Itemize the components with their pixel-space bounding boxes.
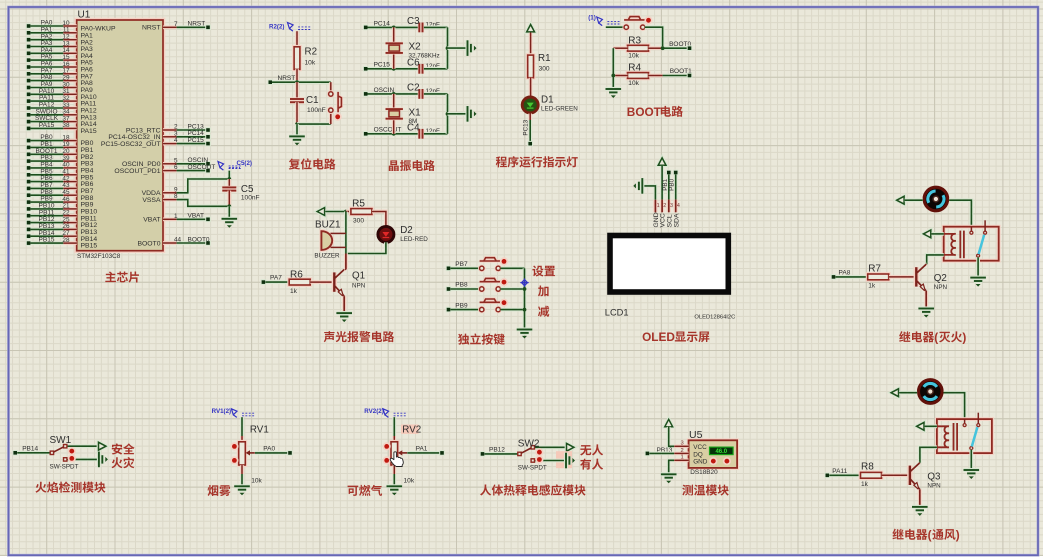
svg-text:R1: R1 bbox=[538, 53, 551, 64]
svg-text:VBAT: VBAT bbox=[143, 217, 160, 224]
terminal PB13 bbox=[645, 451, 651, 457]
wire D2 to bottom node bbox=[346, 242, 386, 253]
wire button to rail bbox=[501, 287, 525, 291]
svg-text:NPN: NPN bbox=[352, 283, 366, 290]
wire rail to ground bbox=[448, 112, 467, 116]
pin VSSA (8) bbox=[163, 198, 177, 202]
svg-text:Q1: Q1 bbox=[352, 270, 365, 281]
svg-text:BOOT0: BOOT0 bbox=[137, 240, 160, 247]
pin SWDIO (34) bbox=[26, 112, 32, 118]
wire coil feed bbox=[931, 232, 943, 236]
svg-text:RV1(2): RV1(2) bbox=[212, 408, 232, 415]
push-button reset bbox=[329, 92, 333, 96]
label 加 bbox=[538, 286, 549, 297]
svg-text:1: 1 bbox=[174, 213, 178, 220]
svg-text:BOOT: BOOT bbox=[627, 105, 662, 119]
ground sideways bbox=[468, 40, 471, 56]
svg-text:NPN: NPN bbox=[934, 284, 948, 291]
svg-text:10k: 10k bbox=[305, 60, 316, 67]
svg-text:VSSA: VSSA bbox=[142, 197, 161, 204]
capacitor C6 12pF bbox=[419, 64, 422, 74]
wire node to R5 bbox=[346, 210, 351, 214]
wire keys rail bbox=[523, 268, 527, 329]
label relay title bbox=[892, 528, 959, 542]
terminal PB12 bbox=[480, 451, 486, 457]
pin PB14 (27) bbox=[26, 233, 32, 239]
wire power to R1 bbox=[529, 33, 533, 56]
diode D2 LED-RED bbox=[378, 226, 394, 242]
pin PA6 (16) bbox=[26, 64, 32, 70]
wire coil to collector bbox=[920, 447, 937, 462]
pin PA4 (14) bbox=[26, 51, 32, 57]
wire right rail bbox=[446, 94, 450, 134]
svg-text:C3: C3 bbox=[407, 16, 420, 27]
svg-text:): ) bbox=[956, 528, 960, 542]
ground RV2 bbox=[387, 486, 403, 489]
wire C1 top stub bbox=[295, 82, 299, 99]
power symbol safe bbox=[99, 442, 106, 450]
terminal PA7 bbox=[261, 279, 267, 285]
label flame module title bbox=[35, 482, 105, 493]
svg-text:BUZZER: BUZZER bbox=[314, 252, 340, 259]
pin PB0 (18) bbox=[26, 138, 32, 144]
wire PB8 to button bbox=[451, 287, 480, 291]
svg-text:LED-RED: LED-RED bbox=[400, 236, 428, 243]
svg-text:38: 38 bbox=[62, 122, 70, 129]
potentiometer RV2 10k bbox=[401, 425, 419, 434]
capacitor C4 12pF bbox=[419, 129, 422, 139]
wire button right to BOOT0 rail bbox=[645, 27, 663, 48]
svg-text:NPN: NPN bbox=[927, 482, 941, 489]
terminal NRST bbox=[268, 79, 274, 85]
svg-text:RV2(2): RV2(2) bbox=[364, 408, 384, 415]
terminal PA0 bbox=[287, 450, 293, 456]
wire RV1 bottom bbox=[240, 465, 244, 474]
ground U5 bbox=[661, 474, 677, 477]
pin PA12 (33) bbox=[26, 105, 32, 111]
label indicator title bbox=[496, 156, 578, 167]
capacitor C2 12pF bbox=[419, 89, 422, 99]
pin PA10 (31) bbox=[26, 92, 32, 98]
svg-text:R7: R7 bbox=[868, 263, 881, 274]
svg-text:46.0: 46.0 bbox=[715, 449, 727, 455]
crystal X2 bbox=[392, 27, 396, 43]
resistor R3 10k bbox=[628, 45, 649, 51]
relay contacts bbox=[964, 419, 966, 424]
wire SCL bbox=[667, 175, 671, 200]
svg-text:OSCOUT_PD1: OSCOUT_PD1 bbox=[114, 168, 160, 175]
svg-text:100nF: 100nF bbox=[307, 107, 326, 114]
ground below C5 bbox=[222, 219, 238, 222]
pin PB5 (41) bbox=[26, 172, 32, 178]
wire button to rail bbox=[501, 308, 525, 312]
pin VBAT (1) bbox=[163, 217, 177, 221]
label keys title bbox=[458, 333, 505, 344]
svg-text:(1): (1) bbox=[588, 15, 596, 22]
ground Q2 bbox=[918, 309, 934, 312]
svg-text:SW-SPDT: SW-SPDT bbox=[50, 464, 79, 471]
wire coil feed bbox=[925, 424, 937, 428]
pin PB12 (25) bbox=[26, 220, 32, 226]
transistor Q1 NPN bbox=[332, 272, 337, 291]
label gas title bbox=[348, 485, 383, 496]
pin PB13 (26) bbox=[26, 227, 32, 233]
svg-text:Q3: Q3 bbox=[927, 471, 941, 482]
svg-text:RV2: RV2 bbox=[402, 425, 421, 436]
wire emitter to ground bbox=[918, 489, 922, 507]
terminal OSCOUT bbox=[363, 131, 369, 137]
power symbol OLED VCC bbox=[658, 158, 666, 165]
wire SW1 down throw bbox=[67, 457, 98, 461]
terminal BOOT1 bbox=[687, 73, 693, 79]
svg-text:PA1: PA1 bbox=[416, 446, 428, 453]
svg-text:C1: C1 bbox=[306, 95, 319, 106]
svg-text:RV1: RV1 bbox=[250, 425, 269, 436]
ground reset circuit bbox=[295, 124, 299, 136]
ground relay bbox=[970, 278, 986, 281]
wire power to node bbox=[325, 210, 346, 214]
push-button PB7 bbox=[480, 266, 484, 270]
push-button PB8 bbox=[480, 287, 484, 291]
svg-text:LCD1: LCD1 bbox=[605, 308, 629, 318]
pin PA1 (11) bbox=[26, 30, 32, 36]
svg-text:R3: R3 bbox=[628, 35, 641, 46]
wire right rail bbox=[446, 27, 450, 68]
svg-text:C5(2): C5(2) bbox=[237, 160, 252, 167]
label 减 bbox=[538, 306, 549, 317]
svg-text:1k: 1k bbox=[290, 288, 298, 295]
svg-text:4: 4 bbox=[677, 203, 680, 209]
svg-text:PC15-OSC32_OUT: PC15-OSC32_OUT bbox=[101, 141, 161, 148]
terminal PB9 bbox=[446, 307, 452, 313]
wire R2 top bbox=[295, 31, 299, 47]
wire Q1 collector bbox=[344, 268, 346, 271]
svg-text:10k: 10k bbox=[628, 80, 639, 87]
power symbol alarm bbox=[317, 208, 324, 216]
wire button left bbox=[606, 25, 624, 29]
wire rail to ground bbox=[448, 46, 467, 50]
svg-text:C5: C5 bbox=[241, 184, 254, 195]
wire PB14 to SW1 bbox=[17, 451, 50, 455]
wire PC15 row bbox=[368, 67, 419, 71]
svg-text:OLED: OLED bbox=[642, 330, 675, 344]
svg-text:SW2: SW2 bbox=[518, 439, 540, 450]
label temperature module title bbox=[682, 484, 729, 495]
svg-text:GND: GND bbox=[693, 459, 708, 466]
svg-text:R2(2): R2(2) bbox=[269, 24, 284, 31]
svg-text:(: ( bbox=[934, 330, 938, 344]
svg-text:7: 7 bbox=[174, 21, 178, 28]
svg-text:U5: U5 bbox=[689, 429, 703, 441]
wire button branch vertical bbox=[329, 82, 333, 92]
pin BOOT1 (20) bbox=[26, 152, 32, 158]
svg-text:2: 2 bbox=[663, 203, 666, 209]
svg-text:C2: C2 bbox=[407, 82, 420, 93]
terminal PC13 rotated label bbox=[527, 141, 533, 147]
svg-text:(: ( bbox=[928, 528, 932, 542]
pin PC15-OSC32_OUT (4) bbox=[163, 142, 177, 146]
label reset circuit title bbox=[289, 158, 336, 169]
ground BOOT circuit bbox=[606, 89, 622, 92]
terminal PB1 bbox=[666, 170, 672, 176]
terminal PB7 bbox=[446, 266, 452, 272]
pin PB10 (21) bbox=[26, 206, 32, 212]
svg-text:1: 1 bbox=[657, 203, 660, 209]
terminal BOOT0 bbox=[687, 45, 693, 51]
svg-text:10k: 10k bbox=[251, 477, 262, 484]
ground Q3 bbox=[912, 507, 928, 510]
wire SDA bbox=[674, 175, 678, 200]
chip U5 DS18B20 body bbox=[689, 440, 738, 468]
terminal PA11 bbox=[825, 473, 831, 479]
pin PA8 (29) bbox=[26, 78, 32, 84]
power symbol indicator bbox=[527, 25, 535, 32]
node marker blue bbox=[520, 278, 528, 286]
svg-text:PA15: PA15 bbox=[39, 122, 55, 129]
wire PA7 to R6 bbox=[265, 280, 288, 284]
transistor Q2 NPN bbox=[914, 267, 919, 286]
wire R1 to D1 bbox=[529, 78, 533, 97]
svg-text:DQ: DQ bbox=[693, 451, 703, 458]
wire collector bbox=[918, 461, 922, 464]
wire bottom node to button bbox=[297, 122, 331, 126]
label PIR module title bbox=[480, 484, 586, 495]
wire RV2 bottom bbox=[392, 465, 396, 474]
wire motor to relay bbox=[944, 393, 965, 419]
svg-text:OSCOUT: OSCOUT bbox=[188, 164, 216, 171]
svg-text:8M: 8M bbox=[409, 118, 418, 125]
motor R7 fan bbox=[924, 187, 948, 211]
pin PA15 (38) bbox=[26, 126, 32, 132]
wire D1 to terminal PC13 bbox=[528, 114, 532, 144]
terminal PB8 bbox=[446, 286, 452, 292]
switch SW1 SW-SPDT bbox=[50, 445, 67, 462]
svg-text:OLED12864I2C: OLED12864I2C bbox=[694, 314, 735, 320]
wire PB9 to button bbox=[451, 308, 480, 312]
svg-text:28: 28 bbox=[62, 237, 70, 244]
pin VDDA (9) bbox=[163, 191, 177, 195]
pin PA2 (12) bbox=[26, 37, 32, 43]
label safe bbox=[112, 443, 135, 454]
wire C6 to rail bbox=[424, 67, 448, 71]
pin PA3 (13) bbox=[26, 44, 32, 50]
resistor R1 300 bbox=[528, 55, 534, 78]
ground PIR bbox=[566, 453, 569, 469]
svg-text:1k: 1k bbox=[868, 283, 876, 290]
wire SW1 up throw bbox=[67, 444, 98, 448]
resistor R5 300 bbox=[351, 209, 372, 215]
wire power to motor bbox=[899, 391, 917, 395]
svg-text:STM32F103C8: STM32F103C8 bbox=[77, 253, 121, 260]
wire GND to side ground bbox=[653, 200, 657, 213]
power symbol relay coil bbox=[923, 230, 930, 238]
diode D1 LED-GREEN bbox=[522, 97, 538, 113]
resistor R8 1k bbox=[861, 472, 882, 478]
pin PB1 (19) bbox=[26, 145, 32, 151]
capacitor C5 100nF bbox=[227, 171, 231, 179]
wire VDDA to C5 top bbox=[177, 179, 230, 193]
wire SW2 up throw bbox=[535, 445, 566, 449]
wire pin1 to ground bbox=[669, 460, 675, 474]
svg-text:Q2: Q2 bbox=[934, 273, 947, 284]
svg-text:VBAT: VBAT bbox=[188, 213, 205, 220]
wire PB13 to pin2 bbox=[649, 451, 674, 455]
pin PC13_RTC (2) bbox=[163, 128, 177, 132]
U5 buttons bbox=[711, 459, 716, 464]
relay coil bbox=[944, 234, 956, 255]
pin PB11 (22) bbox=[26, 213, 32, 219]
mouse hand cursor bbox=[390, 452, 403, 467]
pin NRST (7) bbox=[163, 25, 177, 29]
pin SWCLK (37) bbox=[26, 119, 32, 125]
transistor Q3 NPN bbox=[907, 466, 912, 485]
terminal PA8 bbox=[831, 274, 837, 280]
LCD1 OLED display panel bbox=[610, 236, 728, 293]
resistor R6 1k bbox=[289, 279, 310, 285]
svg-text:VCC: VCC bbox=[693, 444, 707, 451]
svg-text:44: 44 bbox=[174, 237, 182, 244]
svg-text:DS18B20: DS18B20 bbox=[690, 469, 718, 476]
pin PA9 (30) bbox=[26, 85, 32, 91]
resistor R7 1k bbox=[868, 274, 889, 280]
ground RV1 bbox=[234, 486, 250, 489]
terminal PA1 bbox=[439, 450, 445, 456]
wire to base bbox=[882, 473, 909, 477]
svg-text:X2: X2 bbox=[409, 42, 422, 53]
terminal PB0 bbox=[673, 170, 679, 176]
crystal X1 bbox=[392, 94, 396, 109]
motor R8 fan bbox=[919, 380, 943, 404]
resistor R4 10k bbox=[628, 73, 649, 79]
svg-text:SW1: SW1 bbox=[50, 435, 72, 446]
pin PB3 (39) bbox=[26, 158, 32, 164]
op-amp U1 chip body STM32F103C8 bbox=[77, 20, 163, 251]
svg-text:PC15: PC15 bbox=[188, 137, 205, 144]
wire collector bbox=[925, 263, 929, 266]
label relay title bbox=[899, 330, 966, 344]
wire PB12 to SW2 bbox=[485, 452, 518, 456]
power symbol nobody bbox=[567, 443, 574, 451]
push-button PB9 bbox=[480, 307, 484, 311]
svg-text:BOOT0: BOOT0 bbox=[188, 236, 210, 243]
svg-text:3: 3 bbox=[681, 441, 684, 447]
wire PC14 row bbox=[368, 25, 419, 29]
label 设置 bbox=[532, 266, 555, 277]
wire left rail BOOT bbox=[611, 48, 615, 89]
svg-text:NRST: NRST bbox=[188, 21, 206, 28]
resistor R2 10k bbox=[294, 47, 300, 70]
pin OSCOUT_PD1 (6) bbox=[163, 169, 177, 173]
ground keys bbox=[517, 330, 533, 333]
power symbol motor left bbox=[891, 389, 898, 397]
label alarm title bbox=[324, 331, 394, 342]
wire NRST horizontal bbox=[272, 80, 331, 84]
capacitor C3 12pF bbox=[419, 23, 422, 33]
svg-text:PC13: PC13 bbox=[523, 119, 530, 135]
wire RV2 top bbox=[392, 417, 396, 436]
svg-text:BUZ1: BUZ1 bbox=[315, 220, 341, 231]
wire R4 pins bbox=[613, 74, 627, 78]
wire VSSA to C5 bottom bbox=[177, 200, 230, 207]
wire relay common to ground bbox=[969, 450, 973, 470]
potentiometer RV1 10k bbox=[239, 442, 246, 465]
svg-text:4: 4 bbox=[174, 137, 178, 144]
svg-text:U1: U1 bbox=[78, 10, 91, 21]
svg-text:1: 1 bbox=[681, 455, 684, 461]
svg-text:PA0: PA0 bbox=[263, 446, 275, 453]
U5 display 46.0 bbox=[710, 447, 734, 455]
svg-text:R5: R5 bbox=[352, 199, 365, 210]
wire relay common to ground bbox=[976, 257, 980, 277]
ground alarm bbox=[336, 313, 352, 316]
svg-text:PB15: PB15 bbox=[39, 237, 55, 244]
svg-text:LED-GREEN: LED-GREEN bbox=[541, 106, 578, 113]
ground sideways bbox=[468, 106, 471, 122]
wire to base bbox=[889, 275, 915, 279]
pin PB4 (40) bbox=[26, 165, 32, 171]
capacitor C1 100nF bbox=[290, 99, 304, 102]
pin PB8 (45) bbox=[26, 192, 32, 198]
svg-text:10k: 10k bbox=[628, 53, 639, 60]
pin BOOT0 (44) bbox=[163, 241, 177, 245]
label fire bbox=[112, 457, 135, 468]
terminal PC15 bbox=[363, 66, 369, 72]
wire emitter to ground bbox=[924, 291, 928, 309]
wire OSCIN row bbox=[368, 92, 419, 96]
terminal PB14 bbox=[12, 450, 18, 456]
pin PA7 (17) bbox=[26, 71, 32, 77]
wire R3 pins bbox=[613, 46, 627, 50]
power symbol U5 VCC bbox=[665, 419, 673, 426]
wire Q1 emitter to ground bbox=[342, 296, 346, 313]
wire RV2 wiper to PA1 bbox=[407, 451, 440, 455]
pin PA5 (15) bbox=[26, 57, 32, 63]
pin 1 GND bbox=[674, 458, 688, 462]
wire C4 to rail bbox=[424, 132, 448, 136]
svg-text:32.768KHz: 32.768KHz bbox=[409, 52, 440, 59]
highlight box PIR ground bbox=[556, 451, 572, 468]
svg-text:NRST: NRST bbox=[142, 25, 161, 32]
wire OSCOUT row bbox=[368, 132, 419, 136]
svg-text:R6: R6 bbox=[290, 269, 303, 280]
svg-text:6: 6 bbox=[174, 164, 178, 171]
pin 3 VCC bbox=[674, 444, 688, 448]
wire PA8 to R7 bbox=[836, 275, 868, 279]
wire VCC to pin3 bbox=[669, 427, 675, 447]
pin PA0 (10) bbox=[26, 23, 32, 29]
relay R7 box bbox=[944, 227, 999, 261]
wire C1 bottom bbox=[295, 102, 299, 124]
label somebody bbox=[580, 459, 603, 470]
wire C3 to rail bbox=[424, 25, 448, 29]
wire BOOT0 net bbox=[663, 46, 690, 50]
pin 2 DQ bbox=[674, 452, 688, 456]
power symbol motor left bbox=[897, 196, 904, 204]
svg-text:100nF: 100nF bbox=[241, 195, 260, 202]
wire alarm rail bbox=[344, 212, 348, 254]
wire SW2 down throw bbox=[535, 459, 565, 463]
wire PA11 to R8 bbox=[829, 473, 860, 477]
wire R6 to Q1 base bbox=[310, 280, 333, 284]
terminal PC14 bbox=[363, 25, 369, 31]
label crystal circuit title bbox=[389, 160, 435, 171]
pin PB6 (42) bbox=[26, 179, 32, 185]
svg-text:R2: R2 bbox=[305, 47, 318, 58]
wire coil to collector bbox=[927, 255, 944, 264]
power symbol relay coil bbox=[917, 422, 924, 430]
wire power to motor bbox=[905, 198, 923, 202]
svg-text:3: 3 bbox=[670, 203, 673, 209]
